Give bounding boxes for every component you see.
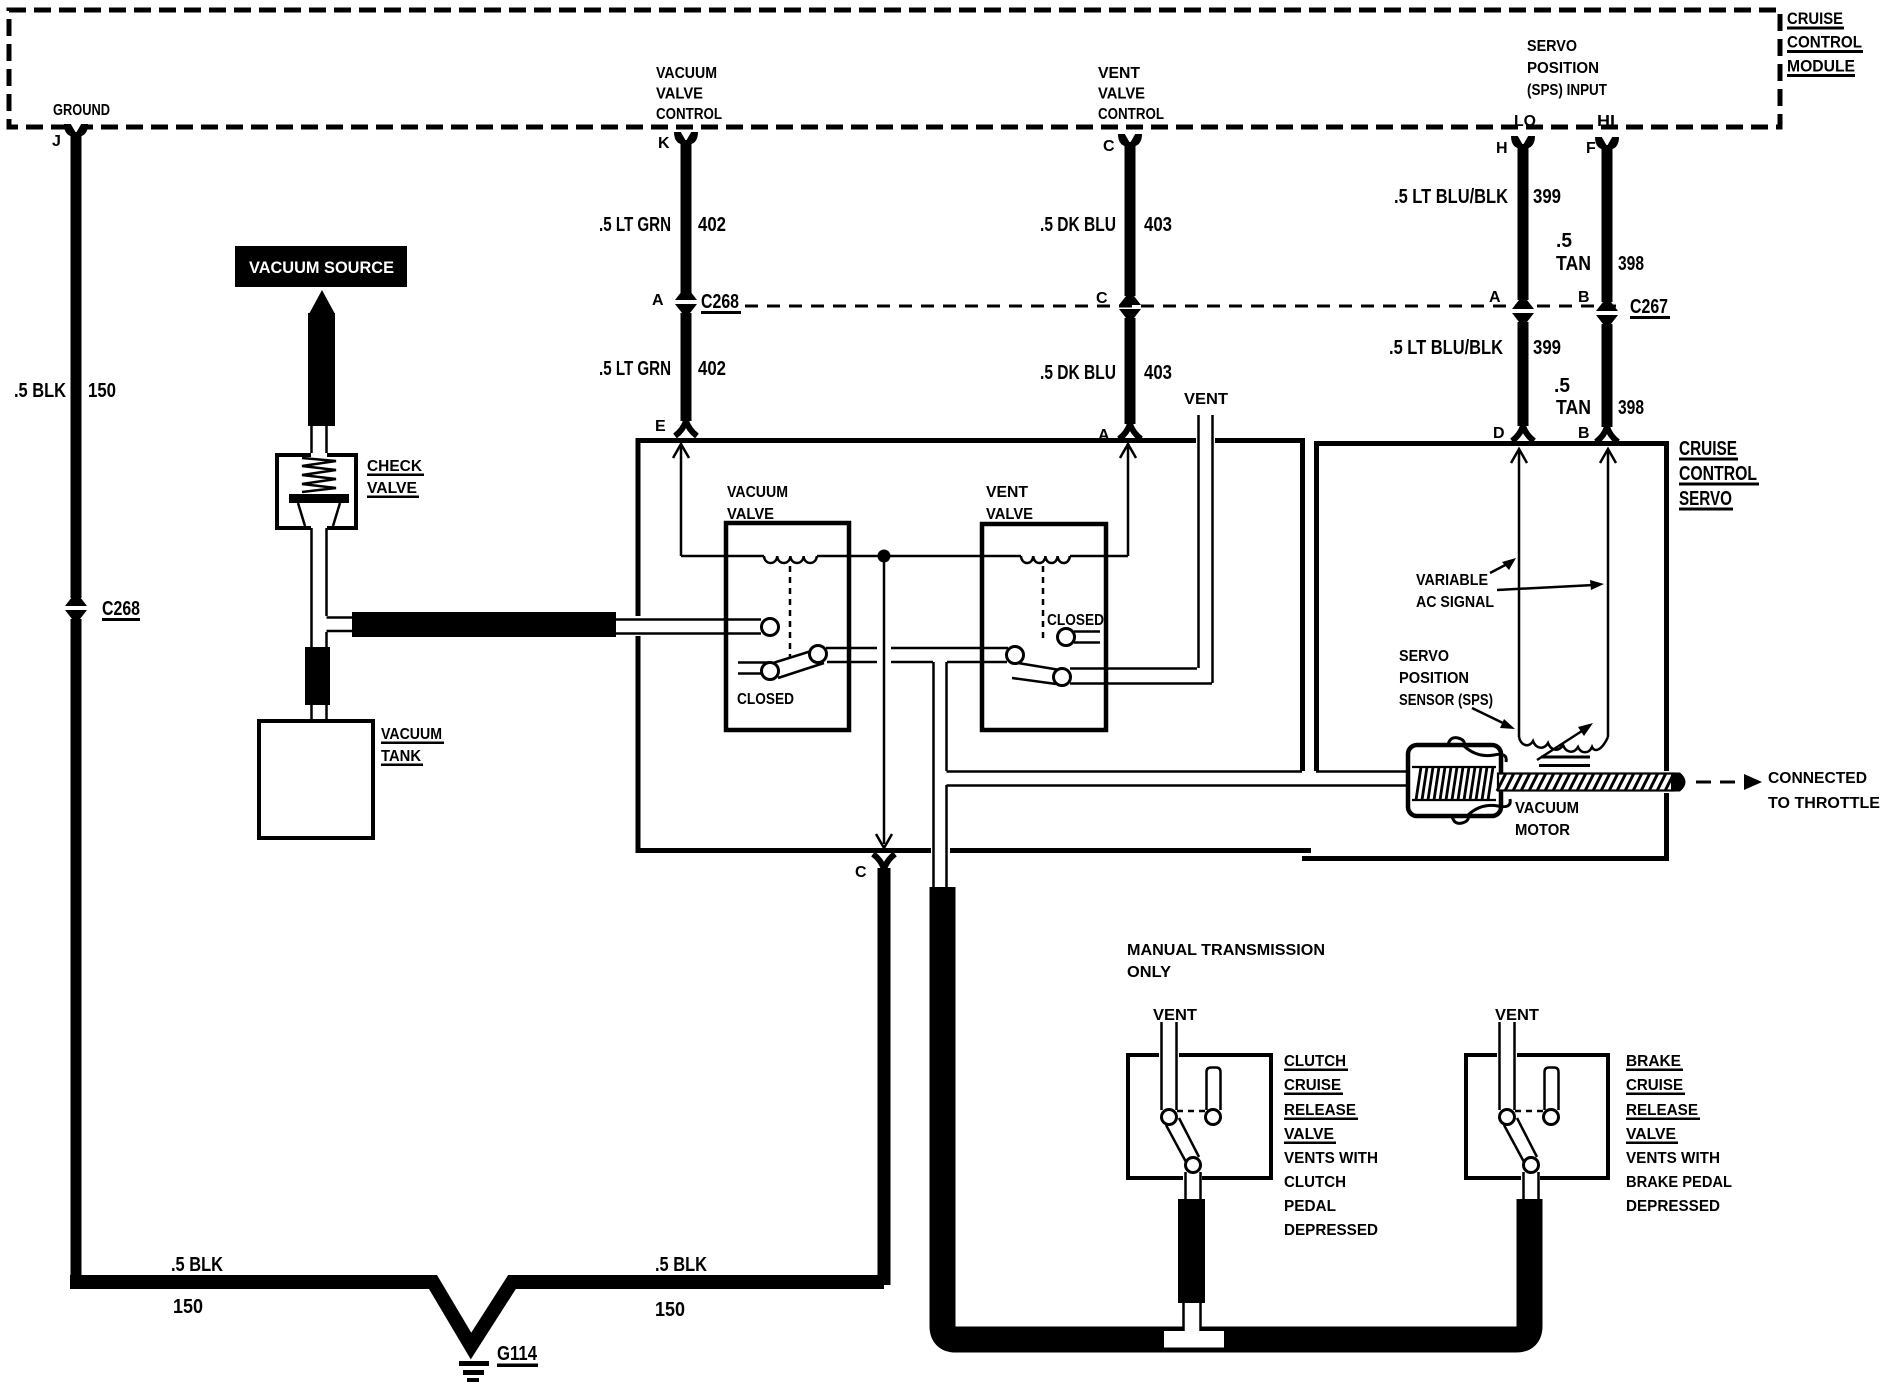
vacuum valve bar end (810, 646, 827, 663)
svg-text:VENT: VENT (1098, 65, 1140, 82)
svg-text:BRAKE PEDAL: BRAKE PEDAL (1626, 1174, 1732, 1191)
check valve body (277, 455, 356, 528)
vent valve box (982, 524, 1106, 730)
pipe (vent valve to vent stack) (1070, 669, 1212, 684)
servo position sensor element (1519, 737, 1608, 752)
label VACUUM VALVE (solenoid) (727, 484, 788, 523)
wire (A arrow into box) (1120, 444, 1136, 556)
svg-text:A: A (1489, 289, 1501, 306)
wire end fishtail at B (1596, 427, 1618, 442)
svg-text:PEDAL: PEDAL (1284, 1198, 1336, 1215)
svg-text:150: 150 (88, 380, 116, 402)
svg-text:CLUTCH: CLUTCH (1284, 1053, 1346, 1070)
svg-text:BRAKE: BRAKE (1626, 1053, 1681, 1070)
brake valve stub port (1544, 1110, 1559, 1125)
pipe (tee to vacuum motor) (947, 772, 1410, 786)
pipe (clutch valve outlet down) (1186, 1172, 1201, 1200)
vent valve armature bar (1012, 663, 1060, 684)
svg-text:E: E (655, 418, 666, 435)
connector B (C267) on wire 398 (1596, 302, 1618, 324)
vent valve inlet pivot (1007, 647, 1024, 664)
svg-text:VALVE: VALVE (727, 506, 774, 523)
check valve seat (289, 494, 349, 503)
vacuum motor top hook (1448, 738, 1506, 762)
svg-text:CRUISE: CRUISE (1787, 9, 1843, 28)
vacuum tank (259, 721, 373, 838)
svg-text:VACUUM SOURCE: VACUUM SOURCE (249, 258, 394, 277)
svg-text:VALVE: VALVE (1098, 86, 1145, 103)
wire 150 .5 BLK (J ground wire, upper) (71, 132, 82, 598)
pin H connector at module (1511, 136, 1535, 150)
label C268 (ground wire) (102, 598, 140, 621)
pin K connector at module (674, 132, 698, 146)
svg-text:399: 399 (1533, 186, 1561, 208)
svg-text:CONTROL: CONTROL (1098, 106, 1164, 123)
clutch valve armature bar (1166, 1118, 1199, 1162)
vacuum valve armature bar (773, 648, 824, 678)
wire 402 .5 LT GRN (lower segment to E) (681, 313, 692, 421)
servo actuator shaft (hatched) (1497, 773, 1686, 792)
svg-text:POSITION: POSITION (1399, 670, 1469, 687)
svg-text:CRUISE: CRUISE (1284, 1077, 1341, 1094)
svg-text:398: 398 (1618, 253, 1644, 275)
vent valve solenoid coil (1021, 556, 1070, 563)
svg-text:MANUAL TRANSMISSION: MANUAL TRANSMISSION (1127, 942, 1325, 959)
svg-text:403: 403 (1144, 362, 1172, 384)
svg-text:GROUND: GROUND (53, 102, 110, 119)
vacuum valve solenoid coil (764, 556, 817, 563)
label VACUUM VALVE CONTROL (656, 65, 722, 123)
svg-text:TAN: TAN (1556, 397, 1591, 419)
clutch valve dashed link (1177, 1110, 1206, 1113)
svg-text:CLOSED: CLOSED (1047, 612, 1104, 629)
label CRUISE CONTROL MODULE (1787, 9, 1863, 77)
svg-text:SERVO: SERVO (1679, 488, 1732, 510)
clutch valve vent port (1162, 1110, 1177, 1125)
pipe (vacuum valve to vent valve) (826, 648, 1008, 662)
label SERVO POSITION SENSOR (SPS) (1399, 648, 1493, 709)
wire end fishtail at C (873, 854, 895, 869)
svg-text:VENT: VENT (986, 484, 1028, 501)
wire 398 .5 TAN (upper segment F) (1602, 145, 1613, 302)
wire 403 .5 DK BLU (lower segment to A) (1125, 318, 1136, 424)
SPS wiper arrow (1537, 723, 1593, 760)
svg-text:LO: LO (1514, 113, 1536, 130)
svg-text:CRUISE: CRUISE (1679, 438, 1737, 460)
svg-text:VALVE: VALVE (986, 506, 1033, 523)
svg-text:B: B (1578, 289, 1590, 306)
connector C on wire 403 (1119, 296, 1141, 318)
svg-text:VARIABLE: VARIABLE (1416, 572, 1488, 589)
vent hose (valve tee to bottom tee) (943, 887, 1165, 1340)
vent valve bar end (1054, 669, 1071, 686)
svg-text:CONTROL: CONTROL (656, 106, 722, 123)
vacuum source label box (235, 246, 407, 287)
svg-text:H: H (1496, 140, 1508, 157)
svg-text:.5: .5 (1556, 230, 1572, 252)
svg-text:TAN: TAN (1556, 253, 1591, 275)
arrow (variable ac signal to B line) (1497, 580, 1604, 590)
svg-text:RELEASE: RELEASE (1626, 1102, 1698, 1119)
clutch vent hose (1178, 1199, 1205, 1303)
arrow (variable ac signal to D line) (1490, 558, 1516, 573)
svg-text:VACUUM: VACUUM (1515, 800, 1579, 817)
svg-text:VACUUM: VACUUM (727, 484, 788, 501)
wire 150 (C down to ground run) (878, 868, 891, 1285)
label C267 (1630, 296, 1670, 319)
label CRUISE CONTROL SERVO (1679, 438, 1759, 511)
vacuum valve contact pivot (762, 663, 779, 680)
pin C connector at module (1118, 134, 1142, 148)
vacuum valve closed contact lines (738, 663, 770, 674)
pin J connector at module (64, 124, 88, 138)
vent valve coil dashed link (1042, 566, 1045, 640)
label CLUTCH CRUISE RELEASE VALVE (1284, 1053, 1378, 1239)
pipe (hose to vacuum valve port) (616, 620, 761, 634)
vacuum source arrow (309, 290, 335, 314)
brake valve armature bar (1504, 1118, 1537, 1162)
svg-text:AC SIGNAL: AC SIGNAL (1416, 594, 1494, 611)
svg-text:VALVE: VALVE (1284, 1126, 1334, 1143)
svg-text:ONLY: ONLY (1127, 964, 1171, 981)
connector C268 on ground wire (65, 597, 87, 619)
pin F connector at module (1595, 137, 1619, 151)
svg-text:DEPRESSED: DEPRESSED (1284, 1222, 1378, 1239)
clutch valve stub port tube (1207, 1068, 1221, 1111)
svg-text:402: 402 (698, 358, 726, 380)
cruise control servo box (1302, 444, 1667, 859)
svg-text:399: 399 (1533, 337, 1561, 359)
svg-text:150: 150 (655, 1299, 685, 1321)
svg-text:B: B (1578, 425, 1590, 442)
vacuum valve inlet port (762, 619, 779, 636)
svg-text:.5 DK BLU: .5 DK BLU (1040, 362, 1116, 384)
vent hose (bottom tee to brake valve) (1224, 1199, 1530, 1340)
svg-text:J: J (52, 133, 61, 150)
svg-text:C268: C268 (102, 598, 140, 620)
ground G114 (459, 1364, 489, 1381)
label .5 TAN (1556, 230, 1644, 275)
SPS base lines (1539, 757, 1590, 766)
svg-text:VENT: VENT (1153, 1007, 1197, 1024)
label SERVO POSITION (SPS) INPUT (1527, 38, 1607, 99)
brake cruise release valve box (1466, 1055, 1608, 1178)
svg-text:398: 398 (1618, 397, 1644, 419)
brake valve outlet (1524, 1158, 1539, 1173)
svg-text:MODULE: MODULE (1787, 57, 1855, 76)
svg-text:A: A (652, 292, 664, 309)
wire 398 .5 TAN (lower segment to B) (1602, 324, 1613, 427)
connector C268 on wire 402 (675, 291, 697, 313)
svg-text:.5 LT BLU/BLK: .5 LT BLU/BLK (1394, 186, 1508, 208)
vacuum motor spring (1412, 767, 1496, 800)
svg-text:CONTROL: CONTROL (1787, 33, 1862, 52)
vent stack pipe (1199, 415, 1213, 683)
dashed connector line C267 (745, 305, 1625, 308)
label .5 TAN (lower) (1554, 375, 1644, 419)
svg-text:.5 LT BLU/BLK: .5 LT BLU/BLK (1389, 337, 1503, 359)
svg-text:(SPS) INPUT: (SPS) INPUT (1527, 82, 1607, 99)
label VENT VALVE CONTROL (1098, 65, 1164, 123)
wire end fishtail at E (675, 421, 697, 436)
brake valve stub port tube (1545, 1068, 1559, 1111)
svg-text:DEPRESSED: DEPRESSED (1626, 1198, 1720, 1215)
label MANUAL TRANSMISSION ONLY (1127, 942, 1325, 981)
vacuum valve coil dashed link (789, 566, 792, 658)
cruise control module (dashed box) (9, 10, 1780, 127)
vent valve closed contact lines (1074, 632, 1100, 643)
svg-text:G114: G114 (497, 1343, 538, 1365)
svg-text:TO THROTTLE: TO THROTTLE (1768, 795, 1880, 812)
pipe (check valve down to tee) (312, 528, 327, 647)
svg-text:C268: C268 (701, 291, 739, 313)
dashed link to throttle (1696, 774, 1762, 790)
valve assembly box (638, 441, 1311, 851)
arrow (label to SPS) (1472, 708, 1515, 729)
svg-text:.5: .5 (1554, 375, 1570, 397)
vent valve closed contact (1058, 629, 1075, 646)
vacuum hose (source to check valve) (308, 313, 335, 426)
check valve plunger (298, 503, 340, 526)
svg-text:K: K (658, 135, 670, 152)
svg-text:.5 BLK: .5 BLK (171, 1254, 223, 1276)
ground run wire 150 (left horizontal + V dip + right horizontal) (70, 1282, 884, 1346)
wire (junction down to C) (876, 556, 892, 848)
wire end fishtail at D (1512, 426, 1534, 441)
label BRAKE CRUISE RELEASE VALVE (1626, 1053, 1732, 1215)
label G114 (497, 1343, 538, 1367)
svg-text:C267: C267 (1630, 296, 1668, 318)
svg-text:.5 LT GRN: .5 LT GRN (599, 214, 671, 236)
svg-text:F: F (1586, 140, 1596, 157)
pipe (valve tee down) (934, 662, 947, 888)
wire (coil bus) (681, 555, 1128, 558)
wire 402 .5 LT GRN (upper segment K to C268) (681, 140, 692, 293)
vacuum motor body (1408, 745, 1501, 816)
svg-text:VACUUM: VACUUM (656, 65, 717, 82)
brake valve vent port (1500, 1110, 1515, 1125)
clutch valve outlet (1186, 1158, 1201, 1173)
svg-text:C: C (1096, 290, 1108, 307)
svg-text:D: D (1493, 425, 1505, 442)
wire (B arrow to SPS) (1600, 449, 1616, 737)
label VACUUM TANK (381, 726, 444, 766)
wire (E arrow into box) (673, 444, 689, 556)
svg-text:HI: HI (1597, 113, 1615, 130)
svg-text:403: 403 (1144, 214, 1172, 236)
svg-text:SENSOR (SPS): SENSOR (SPS) (1399, 692, 1493, 709)
connector A (C267) on wire 399 (1512, 300, 1534, 322)
svg-text:.5 BLK: .5 BLK (14, 380, 66, 402)
pipe tee branch to vacuum valve (327, 618, 355, 632)
svg-text:MOTOR: MOTOR (1515, 822, 1570, 839)
clutch cruise release valve box (1128, 1055, 1271, 1178)
vacuum valve box (726, 523, 849, 730)
label VARIABLE AC SIGNAL (1416, 572, 1494, 611)
svg-text:RELEASE: RELEASE (1284, 1102, 1356, 1119)
pipe (hose to check valve) (312, 426, 327, 453)
wire 403 .5 DK BLU (upper segment C) (1125, 142, 1136, 296)
label VENT VALVE (solenoid) (986, 484, 1033, 523)
svg-text:150: 150 (173, 1296, 203, 1318)
wire 399 .5 LT BLU/BLK (lower segment to D) (1518, 322, 1529, 426)
svg-text:C: C (855, 864, 867, 881)
check valve spring (302, 458, 336, 492)
pipe (hose to tank) (312, 705, 327, 721)
vacuum hose (tee down to tank) (305, 647, 330, 705)
label CHECK VALVE (367, 458, 424, 498)
svg-text:.5 DK BLU: .5 DK BLU (1040, 214, 1116, 236)
svg-text:VALVE: VALVE (1626, 1126, 1676, 1143)
pipe (brake valve outlet down) (1524, 1172, 1539, 1200)
svg-text:402: 402 (698, 214, 726, 236)
svg-text:CHECK: CHECK (367, 458, 422, 475)
label C268 (701, 291, 741, 314)
svg-text:CLOSED: CLOSED (737, 691, 794, 708)
svg-text:VENT: VENT (1495, 1007, 1539, 1024)
label VACUUM MOTOR (1515, 800, 1579, 839)
svg-text:CONTROL: CONTROL (1679, 463, 1757, 485)
wire 399 .5 LT BLU/BLK (upper segment H) (1518, 144, 1529, 300)
svg-text:C: C (1103, 138, 1115, 155)
clutch valve vent pipe (1162, 1022, 1177, 1110)
svg-text:VALVE: VALVE (656, 86, 703, 103)
wire (D arrow to SPS) (1511, 449, 1527, 737)
svg-text:CLUTCH: CLUTCH (1284, 1174, 1346, 1191)
svg-text:VALVE: VALVE (367, 480, 417, 497)
vacuum motor bottom hook (1452, 799, 1510, 823)
svg-text:VENT: VENT (1184, 391, 1228, 408)
wire 150 .5 BLK (J ground wire, lower) (71, 619, 82, 1279)
svg-text:CONNECTED: CONNECTED (1768, 770, 1867, 787)
junction node (878, 550, 891, 563)
svg-text:TANK: TANK (381, 748, 421, 765)
wire end fishtail at A (1119, 424, 1141, 439)
brake valve dashed link (1515, 1110, 1544, 1113)
brake valve vent pipe (1500, 1022, 1515, 1110)
svg-text:.5 BLK: .5 BLK (655, 1254, 707, 1276)
vacuum hose (tee to vacuum valve) (352, 612, 616, 637)
svg-text:VENTS WITH: VENTS WITH (1626, 1150, 1720, 1167)
hose tee junction (1160, 1303, 1228, 1353)
svg-text:CRUISE: CRUISE (1626, 1077, 1683, 1094)
svg-text:VACUUM: VACUUM (381, 726, 442, 743)
svg-text:VENTS WITH: VENTS WITH (1284, 1150, 1378, 1167)
svg-text:SERVO: SERVO (1527, 38, 1577, 55)
clutch valve stub port (1206, 1110, 1221, 1125)
svg-text:.5 LT GRN: .5 LT GRN (599, 358, 671, 380)
label CONNECTED TO THROTTLE (1768, 770, 1880, 812)
svg-text:SERVO: SERVO (1399, 648, 1449, 665)
svg-text:POSITION: POSITION (1527, 60, 1599, 77)
